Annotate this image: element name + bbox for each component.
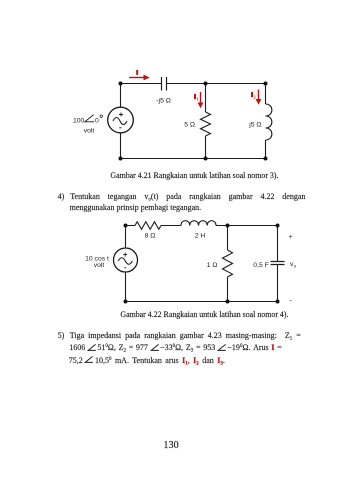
svg-text:-: - (290, 298, 293, 305)
svg-text:100: 100 (73, 118, 85, 125)
svg-text:5 Ω: 5 Ω (184, 122, 195, 129)
svg-text:o: o (294, 264, 297, 269)
svg-text:2: 2 (253, 94, 256, 99)
svg-text:2 H: 2 H (195, 233, 206, 240)
svg-text:1 Ω: 1 Ω (207, 262, 218, 269)
svg-text:1: 1 (196, 96, 199, 101)
svg-text:volt: volt (94, 262, 105, 269)
svg-text:+: + (289, 234, 293, 241)
svg-text:-j5 Ω: -j5 Ω (156, 97, 171, 104)
svg-text:0: 0 (95, 118, 99, 125)
svg-text:0,5 F: 0,5 F (253, 262, 269, 269)
svg-text:j5 Ω: j5 Ω (248, 122, 261, 129)
svg-text:8 Ω: 8 Ω (145, 233, 156, 240)
svg-text:volt: volt (84, 128, 95, 135)
